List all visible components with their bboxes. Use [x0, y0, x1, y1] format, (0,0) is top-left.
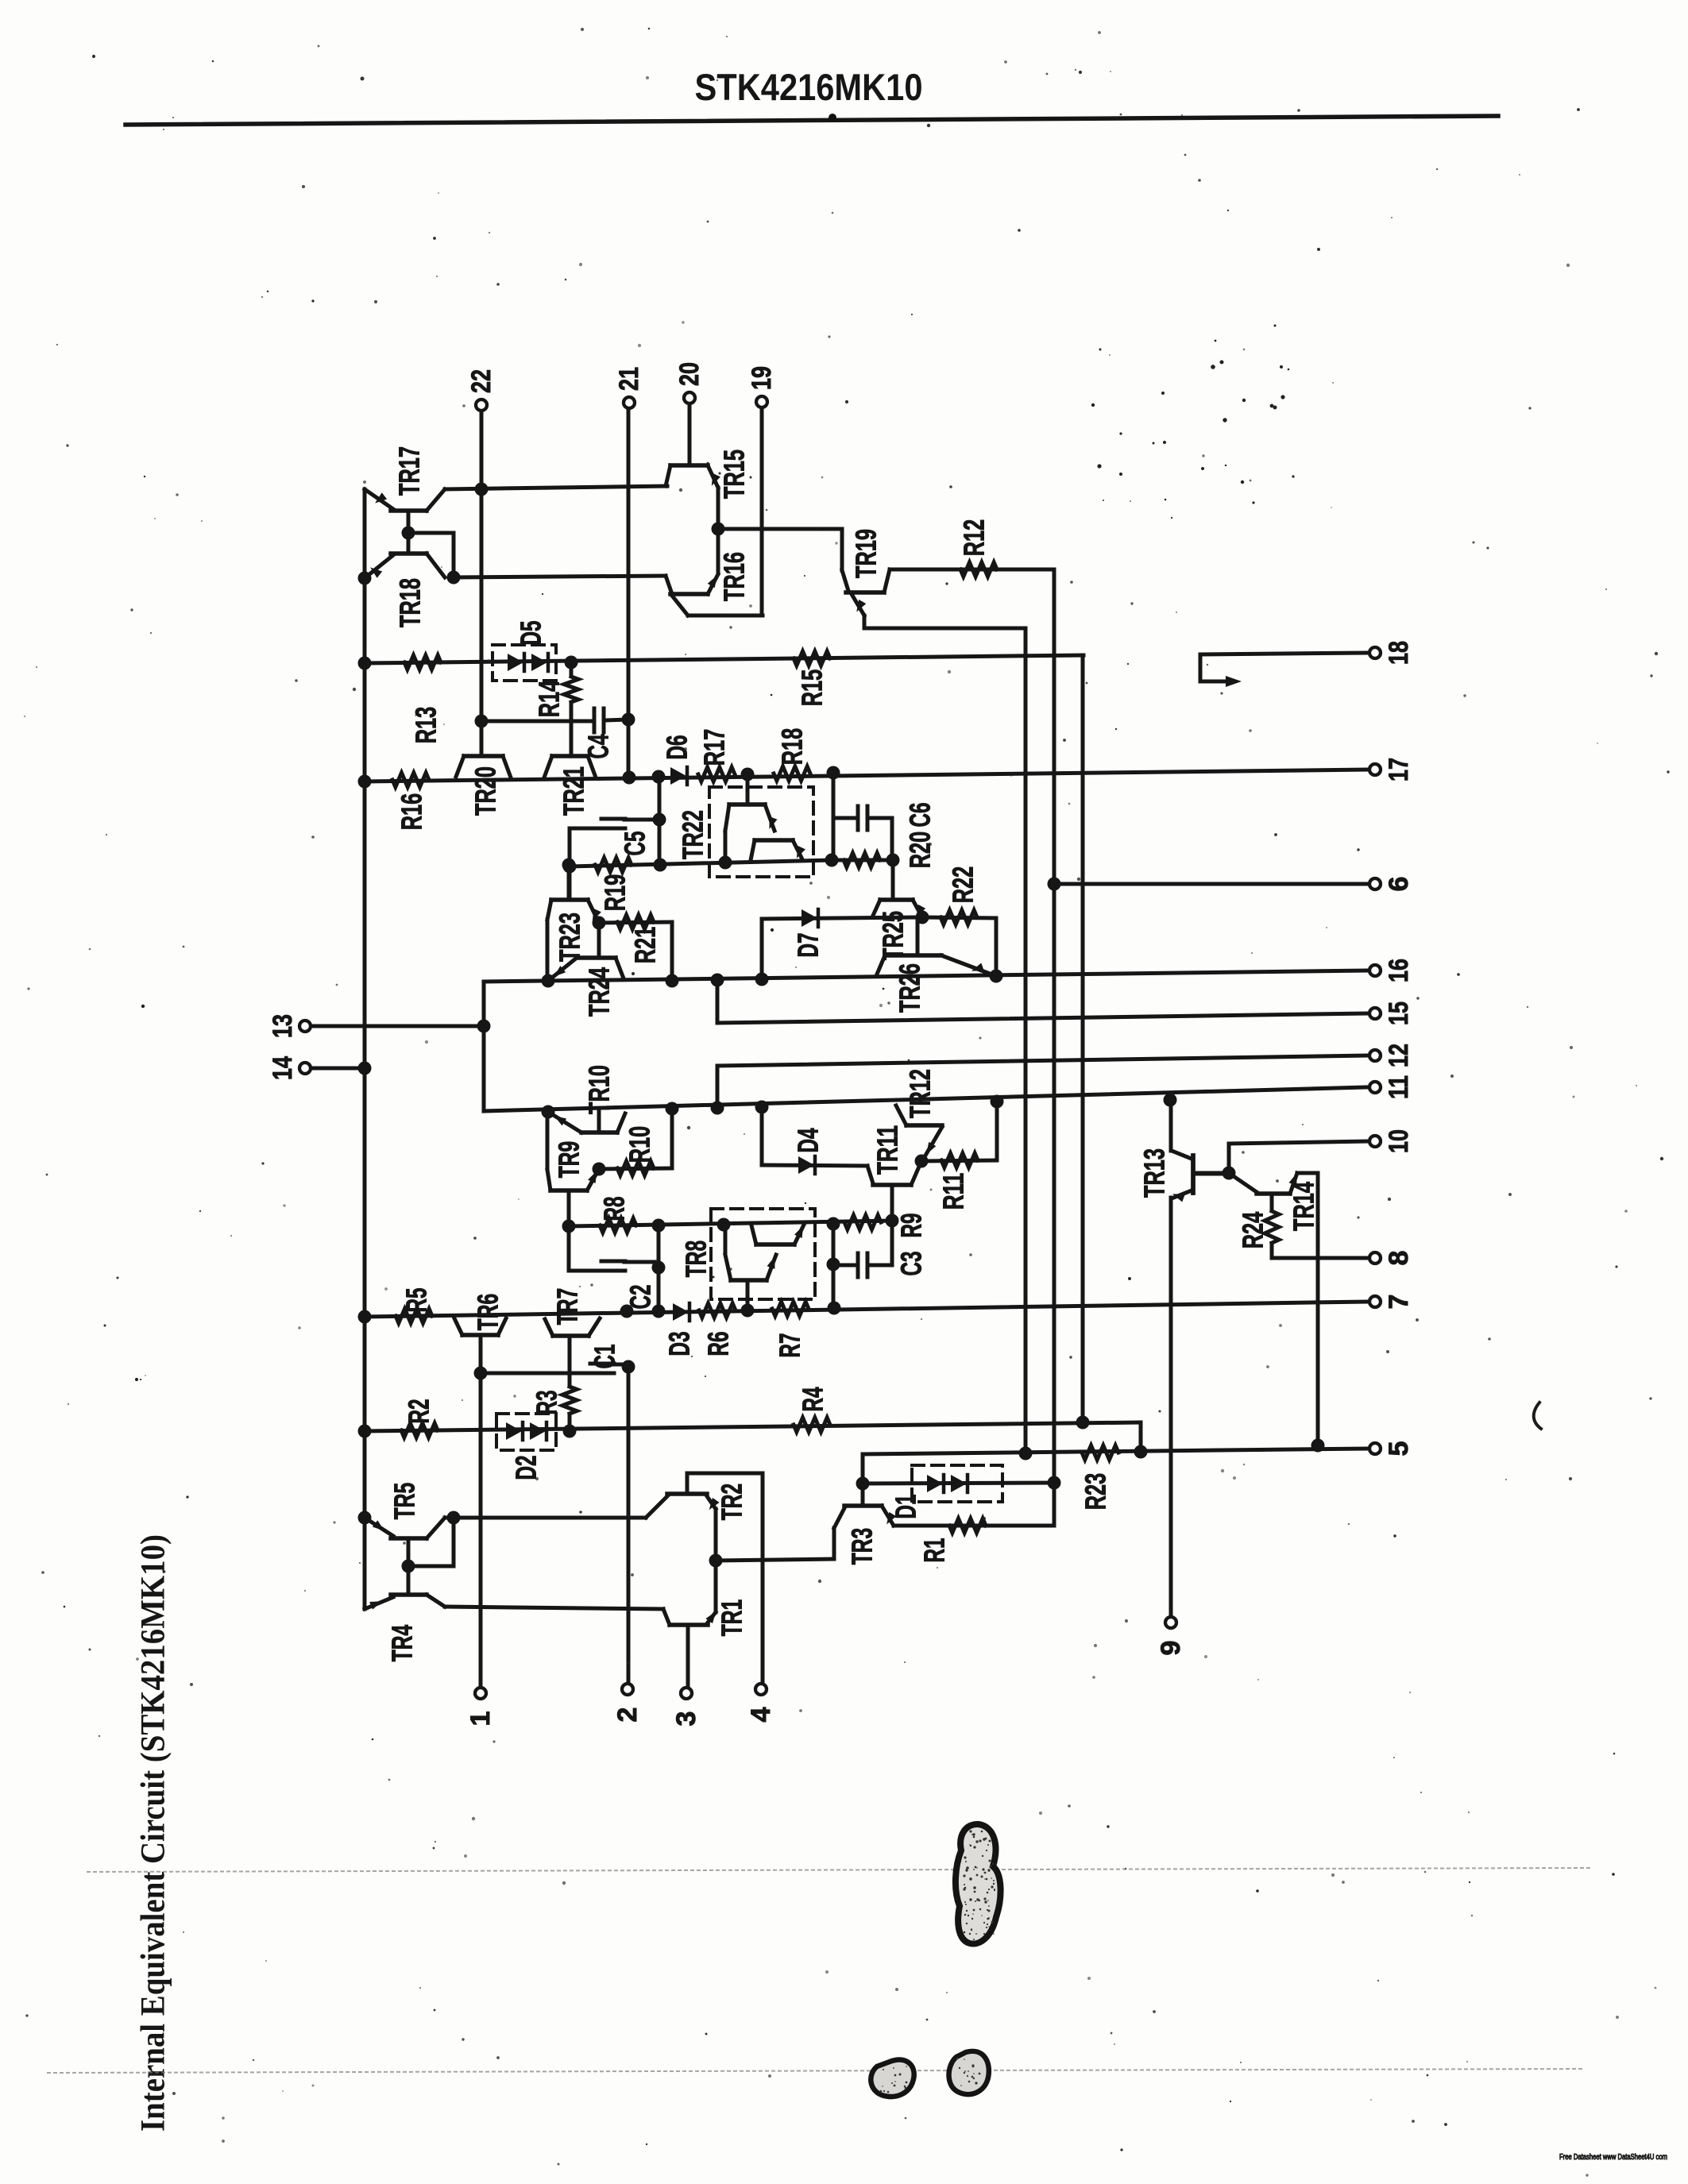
svg-text:R24: R24	[1237, 1212, 1269, 1249]
svg-text:D2: D2	[510, 1456, 543, 1480]
svg-text:R16: R16	[396, 793, 428, 831]
svg-text:R22: R22	[947, 866, 979, 904]
svg-text:R6: R6	[702, 1332, 735, 1356]
svg-text:D7: D7	[792, 933, 825, 958]
svg-text:5: 5	[1384, 1441, 1414, 1457]
svg-text:TR4: TR4	[386, 1625, 419, 1662]
svg-text:R17: R17	[698, 729, 731, 766]
svg-text:C3: C3	[895, 1252, 928, 1276]
svg-text:6: 6	[1384, 877, 1414, 892]
svg-text:R9: R9	[895, 1214, 928, 1238]
svg-text:TR16: TR16	[718, 552, 751, 601]
svg-text:D5: D5	[515, 621, 547, 646]
svg-text:R3: R3	[531, 1391, 563, 1415]
svg-text:R5: R5	[400, 1288, 433, 1313]
svg-text:C1: C1	[589, 1345, 621, 1369]
svg-text:C2: C2	[624, 1285, 657, 1310]
svg-text:TR13: TR13	[1138, 1148, 1171, 1198]
svg-text:1: 1	[465, 1711, 496, 1727]
svg-text:20: 20	[674, 362, 705, 386]
svg-text:TR17: TR17	[393, 446, 426, 496]
svg-text:21: 21	[614, 367, 644, 391]
svg-text:TR21: TR21	[558, 766, 590, 816]
svg-text:R21: R21	[629, 927, 662, 964]
svg-text:14: 14	[268, 1056, 298, 1080]
svg-text:TR14: TR14	[1288, 1182, 1320, 1231]
svg-text:TR8: TR8	[680, 1241, 713, 1278]
svg-text:R7: R7	[774, 1333, 806, 1358]
svg-text:2: 2	[612, 1707, 643, 1723]
svg-text:TR18: TR18	[394, 578, 427, 627]
svg-text:C5: C5	[619, 832, 651, 856]
svg-text:R23: R23	[1080, 1473, 1112, 1511]
svg-text:TR19: TR19	[850, 529, 883, 578]
svg-text:9: 9	[1156, 1641, 1186, 1656]
svg-text:STK4216MK10: STK4216MK10	[695, 66, 923, 108]
svg-text:Internal Equivalent Circuit (S: Internal Equivalent Circuit (STK4216MK10…	[135, 1534, 172, 2132]
svg-text:R8: R8	[598, 1197, 631, 1221]
svg-text:Free Datasheet www DataSheet4: Free Datasheet www DataSheet4U com	[1559, 2153, 1667, 2162]
svg-text:D4: D4	[792, 1129, 825, 1153]
svg-text:11: 11	[1384, 1075, 1414, 1099]
svg-text:TR2: TR2	[716, 1484, 748, 1521]
svg-text:R12: R12	[958, 519, 991, 557]
svg-text:TR26: TR26	[894, 963, 926, 1013]
svg-text:R13: R13	[410, 707, 442, 744]
svg-text:D6: D6	[661, 735, 693, 760]
svg-text:R15: R15	[796, 669, 829, 707]
svg-text:4: 4	[746, 1707, 776, 1722]
svg-text:TR6: TR6	[472, 1294, 504, 1331]
svg-text:R2: R2	[403, 1399, 435, 1424]
svg-text:TR3: TR3	[846, 1528, 879, 1565]
svg-text:16: 16	[1384, 959, 1414, 982]
svg-text:18: 18	[1384, 641, 1414, 665]
svg-text:22: 22	[466, 369, 496, 393]
svg-text:C4: C4	[582, 735, 615, 759]
svg-text:8: 8	[1384, 1251, 1414, 1266]
svg-text:R20: R20	[904, 832, 937, 869]
svg-text:D1: D1	[890, 1495, 922, 1519]
svg-text:TR23: TR23	[554, 913, 586, 962]
svg-text:10: 10	[1384, 1129, 1414, 1153]
svg-text:TR1: TR1	[716, 1599, 748, 1637]
svg-text:TR20: TR20	[469, 766, 502, 816]
svg-text:19: 19	[747, 366, 777, 390]
svg-text:TR7: TR7	[551, 1288, 584, 1325]
svg-text:TR10: TR10	[583, 1065, 616, 1114]
svg-text:R1: R1	[918, 1538, 951, 1563]
svg-text:TR22: TR22	[677, 810, 709, 859]
svg-text:TR5: TR5	[388, 1483, 421, 1520]
svg-text:R11: R11	[937, 1173, 970, 1210]
svg-text:12: 12	[1384, 1044, 1414, 1067]
svg-text:TR12: TR12	[904, 1069, 937, 1118]
svg-text:R14: R14	[533, 681, 566, 718]
svg-text:TR24: TR24	[583, 967, 616, 1017]
svg-text:3: 3	[671, 1711, 701, 1727]
svg-text:C6: C6	[904, 803, 937, 828]
svg-text:TR15: TR15	[718, 450, 751, 499]
svg-text:17: 17	[1384, 758, 1414, 781]
svg-text:D3: D3	[663, 1332, 696, 1356]
svg-text:13: 13	[268, 1014, 298, 1038]
svg-text:R19: R19	[599, 874, 632, 912]
svg-text:7: 7	[1384, 1295, 1414, 1310]
svg-text:R4: R4	[797, 1387, 829, 1412]
svg-text:R10: R10	[624, 1126, 656, 1163]
svg-text:15: 15	[1384, 1001, 1414, 1025]
svg-text:R18: R18	[776, 728, 809, 766]
svg-text:TR9: TR9	[553, 1141, 585, 1179]
svg-text:TR11: TR11	[871, 1125, 904, 1175]
svg-text:TR25: TR25	[877, 911, 910, 960]
